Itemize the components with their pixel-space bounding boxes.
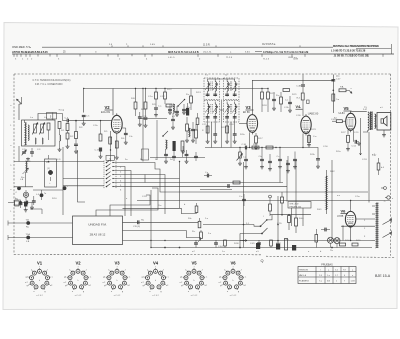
junction af xyxy=(249,147,250,148)
resistor R12 xyxy=(164,92,167,99)
dial scale line 2 main xyxy=(12,53,394,55)
IF transformer T1 (can) xyxy=(204,78,220,100)
capacitor C62 xyxy=(171,118,175,120)
wire det vertical x280 xyxy=(279,148,281,152)
wire grid V3 left xyxy=(239,123,247,125)
capacitor C4 coupling xyxy=(66,119,68,123)
svg-text:UNIDAD F.M.: UNIDAD F.M. xyxy=(88,223,107,227)
capacitor C15 xyxy=(233,133,237,135)
resistor R11 xyxy=(155,92,158,99)
svg-text:T.1A: T.1A xyxy=(26,233,31,236)
IF transformer T4 (can) xyxy=(224,101,240,123)
wire switch feed 1 xyxy=(203,224,254,226)
FM trimpot 1 xyxy=(195,206,198,213)
resistor R8 xyxy=(134,102,137,109)
ground speaker xyxy=(383,134,385,135)
wire right vertical x369 xyxy=(368,132,370,203)
resistor R33 h xyxy=(233,181,240,184)
svg-text:V4.: V4. xyxy=(296,105,302,109)
ground bus dots xyxy=(164,247,166,249)
svg-text:UL84: UL84 xyxy=(339,112,346,115)
wire y186 xyxy=(14,186,33,188)
vertical wire x303 xyxy=(302,208,304,226)
wire between cans xyxy=(221,100,223,148)
resistor R15 xyxy=(206,126,209,133)
switch S6 xyxy=(163,131,168,136)
wire into V2 grid xyxy=(69,120,112,122)
svg-text:C.4B: C.4B xyxy=(296,85,301,87)
resistor R16 xyxy=(226,126,229,133)
vertical wire x63 xyxy=(62,147,64,215)
output transformer hatch xyxy=(370,112,373,113)
svg-text:s: s xyxy=(168,277,169,279)
dial scale line 1 xyxy=(42,46,333,48)
bus wire top xyxy=(113,88,206,90)
left corner sub-circuit xyxy=(15,200,21,205)
capacitor C61 xyxy=(191,128,195,130)
svg-text:P.A.: P.A. xyxy=(340,86,344,89)
mains switch S4 xyxy=(261,220,267,226)
capacitor C36 xyxy=(244,146,246,150)
svg-text:FILAMENT.: FILAMENT. xyxy=(299,280,310,283)
svg-text:s: s xyxy=(52,277,53,279)
terminal strip leads xyxy=(372,240,376,242)
resistor R41 xyxy=(315,235,318,243)
resistor R4 xyxy=(75,132,78,139)
svg-text:V1: V1 xyxy=(37,260,43,265)
resistor R2 xyxy=(66,124,69,131)
vertical wire x278 xyxy=(277,196,279,248)
resistor R18 xyxy=(261,92,264,99)
cluster grounds xyxy=(169,111,171,112)
resistor R1 xyxy=(47,123,50,130)
switch box S xyxy=(47,113,57,120)
wire V5 down pins xyxy=(347,130,349,135)
bottom res row2 xyxy=(270,240,273,246)
ground G4 xyxy=(27,158,29,159)
FM coupling cap C30 xyxy=(137,220,139,224)
svg-text:C.Phillips 71 L 5.B 70 71 2.B: C.Phillips 71 L 5.B 70 71 2.B 2.0 73.B1 … xyxy=(263,52,309,54)
svg-text:2B A3 U8 12: 2B A3 U8 12 xyxy=(90,233,106,237)
svg-text:38 B 5.2 O.71 5.8 1.3 2.4 B: 38 B 5.2 O.71 5.8 1.3 2.4 B xyxy=(168,51,199,54)
svg-text:V6: V6 xyxy=(230,260,236,265)
capacitor C64 xyxy=(164,153,168,155)
svg-text:Ωav: Ωav xyxy=(336,75,340,78)
capacitor C39 xyxy=(268,160,272,162)
chassis dashed border top xyxy=(14,73,391,75)
V3 cathode resistor R17 xyxy=(255,136,258,143)
speaker wires xyxy=(376,115,377,117)
tube V5 UL84 xyxy=(346,113,356,130)
resistor R28 h xyxy=(252,146,259,149)
svg-text:ECH 81: ECH 81 xyxy=(101,110,111,114)
capacitor C16 xyxy=(272,98,276,100)
switch block box xyxy=(106,156,114,161)
svg-text:a.C 4.2: a.C 4.2 xyxy=(152,295,159,297)
svg-text:a.C 4.2: a.C 4.2 xyxy=(75,295,82,297)
resistor R34 xyxy=(269,204,272,211)
capacitor C47 xyxy=(331,79,335,81)
wire IFT4 bottom to af line xyxy=(230,122,232,148)
speaker cone xyxy=(384,116,388,126)
wire FM out 2 xyxy=(123,221,199,223)
svg-text:11 5.R.: 11 5.R. xyxy=(203,44,211,46)
svg-text:71.2.5: 71.2.5 xyxy=(226,57,233,59)
junction dot a xyxy=(83,88,84,89)
wire V6 cathode xyxy=(350,229,352,241)
capacitor C42 xyxy=(293,158,297,160)
capacitor C60 xyxy=(242,198,246,200)
AF line xyxy=(205,147,310,149)
V5 cathode resistor R27 xyxy=(347,135,350,142)
resistor R14 h xyxy=(166,104,172,107)
trimmer CT1 xyxy=(22,151,26,153)
capacitor C38 xyxy=(260,158,264,160)
left small box A xyxy=(15,201,20,206)
resistor chain R3 xyxy=(58,122,61,129)
wire V4 feeds xyxy=(302,75,304,85)
wire h y118 xyxy=(140,118,167,120)
ground G1 xyxy=(67,145,69,146)
wire FM out 3 xyxy=(123,231,202,238)
dial lamp LPa xyxy=(328,237,334,243)
left parts marks xyxy=(19,202,23,204)
svg-text:EF 89: EF 89 xyxy=(243,111,250,114)
svg-text:a.C 4.2: a.C 4.2 xyxy=(114,295,121,297)
coil L5 xyxy=(173,104,174,113)
resistor R31 h xyxy=(352,243,358,246)
switch fan wire 7 xyxy=(144,175,146,183)
capacitor C68 xyxy=(206,174,208,178)
wire OT bottom xyxy=(363,130,368,132)
svg-text:Q: Q xyxy=(261,258,264,263)
lamp leads xyxy=(330,243,332,247)
svg-text:OL 5.5×5.5 a: OL 5.5×5.5 a xyxy=(262,43,276,46)
svg-text:V5: V5 xyxy=(191,260,197,265)
switch fan wire 1 xyxy=(113,167,125,217)
svg-text:BJE 15-A: BJE 15-A xyxy=(375,274,391,278)
resistor R24 xyxy=(332,94,335,101)
chassis dashed border bottom xyxy=(14,254,262,256)
terminal dot osc xyxy=(17,186,21,190)
capacitor C37 xyxy=(244,158,248,160)
capacitor C40 xyxy=(278,158,282,160)
heater dropper hatched bar xyxy=(326,176,328,210)
small box C4T xyxy=(307,100,310,104)
wire switch out xyxy=(267,215,272,220)
antenna coil L1b xyxy=(28,125,29,140)
terminal strip hatched bar xyxy=(376,203,378,249)
wire y161 xyxy=(14,161,49,163)
svg-text:A77CO 56.49.93.2O.5.5O.2.5.15: A77CO 56.49.93.2O.5.5O.2.5.15 xyxy=(12,50,48,54)
wire left terminal feed 2 xyxy=(8,237,73,239)
wire V2 pin k down xyxy=(110,131,112,162)
capacitor C48 xyxy=(301,84,305,86)
wire switch feed 2 xyxy=(240,233,262,235)
svg-text:s: s xyxy=(129,277,130,279)
bus wire y178 xyxy=(63,178,104,180)
capacitor C65 xyxy=(172,155,176,157)
wire r4 bus xyxy=(75,150,77,162)
speaker frame xyxy=(377,113,391,131)
grid stopper R26 xyxy=(336,120,342,123)
svg-text:a.C: a.C xyxy=(192,251,196,253)
wire V6 plate xyxy=(350,201,352,210)
heater dropper leads xyxy=(326,170,328,176)
svg-text:FESTIVAL Da LTDbRcNOPWGTECPKWN: FESTIVAL Da LTDbRcNOPWGTECPKWN xyxy=(333,44,379,48)
svg-text:C.c: C.c xyxy=(277,156,280,158)
svg-text:V3: V3 xyxy=(114,260,120,265)
IF transformer T2 (can) xyxy=(204,101,220,123)
antenna box bottom coil xyxy=(35,138,36,144)
mains switch S5 xyxy=(262,228,268,234)
wire antenna down xyxy=(18,104,20,120)
svg-text:UABC 80: UABC 80 xyxy=(308,113,319,116)
switch fan wire 2 xyxy=(113,171,131,217)
wire ps bus xyxy=(296,213,332,215)
vertical wire x77 xyxy=(78,150,86,202)
svg-text:a.C 4.2: a.C 4.2 xyxy=(191,295,198,297)
svg-text:C.s: C.s xyxy=(285,100,288,102)
resistor R22 xyxy=(301,93,304,100)
output transformer core xyxy=(370,112,372,131)
resistor R36b xyxy=(196,118,199,125)
wire IFT1 to V3 xyxy=(220,109,225,111)
tube V3 EBF89 xyxy=(247,115,258,133)
svg-text:1.1B: 1.1B xyxy=(350,281,355,283)
terminal dot Ta xyxy=(40,193,44,197)
svg-text:STE. 204/: STE. 204/ xyxy=(290,204,299,206)
svg-text:a.C 4.2: a.C 4.2 xyxy=(36,295,43,297)
dial scale upper small marks xyxy=(111,45,113,47)
capacitor C59 xyxy=(227,184,229,188)
wire V4 down xyxy=(302,134,304,148)
test-values table xyxy=(298,267,356,284)
capacitor C14 xyxy=(213,133,217,135)
wire step right 2 xyxy=(110,195,150,216)
detector slug xyxy=(48,170,52,174)
svg-text:V5: V5 xyxy=(344,106,350,111)
resistor R20 xyxy=(280,97,283,104)
svg-text:V4: V4 xyxy=(153,260,159,265)
V2 cathode resistor R6 xyxy=(115,141,118,148)
adjustable coil LA2 xyxy=(41,124,44,133)
terminal blob T2 xyxy=(26,236,30,240)
wire x345 v6 area xyxy=(342,226,344,240)
svg-text:V6: V6 xyxy=(341,209,347,214)
junction dots mid xyxy=(135,88,136,89)
chassis dashed border right xyxy=(390,74,392,256)
switch S3 xyxy=(178,100,184,106)
regleta label box xyxy=(288,202,311,209)
svg-text:. 5. 5B 5B. 71 23.B 2O 73.B1 2: . 5. 5B 5B. 71 23.B 2O 73.B1 2B. xyxy=(333,55,369,58)
detector can box xyxy=(45,159,57,187)
wire avc line xyxy=(150,157,205,159)
capacitor C5 xyxy=(82,114,86,116)
dial scale right edge tick xyxy=(391,44,393,54)
svg-text:VALV. A: VALV. A xyxy=(299,274,307,277)
svg-text:L 4 L 5: L 4 L 5 xyxy=(168,57,175,59)
resistor R21 h xyxy=(283,89,290,92)
coil L6 xyxy=(166,140,167,149)
svg-text:s: s xyxy=(206,277,207,279)
capacitor C7 xyxy=(74,143,78,145)
vertical wire x143 xyxy=(142,89,144,162)
vertical bus x151 xyxy=(150,190,152,248)
resistor R44 xyxy=(195,130,198,138)
tube V6 UY85 xyxy=(345,211,355,227)
wire V5 plate to OT xyxy=(351,111,367,113)
output tap resistor R25 xyxy=(339,89,346,92)
wire can top xyxy=(48,155,50,159)
wire det vertical x262 xyxy=(261,148,263,152)
dial scale right underline xyxy=(356,48,391,50)
svg-text:TENSION: TENSION xyxy=(299,269,308,271)
long wire y192 xyxy=(160,172,368,192)
oscillator coil L3 xyxy=(26,161,27,173)
resistor R38 xyxy=(281,197,284,203)
feedback arrow xyxy=(360,118,362,150)
tube V2 ECH81 xyxy=(111,115,122,133)
heater line right xyxy=(341,225,375,227)
bus wire y163 xyxy=(49,161,105,163)
output transformer primary xyxy=(368,112,369,130)
wire antenna box top to V2 xyxy=(38,114,63,121)
ground bus wire xyxy=(151,247,372,249)
switch fan wire 5 xyxy=(113,182,283,184)
wire y190 xyxy=(33,189,63,191)
bus wire upper right xyxy=(206,88,268,90)
vertical wire x157 xyxy=(156,120,158,160)
bus wire y186 xyxy=(63,185,104,187)
wire y189 xyxy=(200,189,232,191)
output transformer secondary xyxy=(375,114,376,128)
vertical wire x287 xyxy=(286,160,288,202)
wire B+ vertical xyxy=(332,75,334,114)
capacitor C67 xyxy=(194,155,198,157)
svg-text:V3: V3 xyxy=(246,105,252,110)
capacitor C17b xyxy=(288,101,292,103)
wire v6 plate run xyxy=(330,200,351,202)
vertical bus x179 xyxy=(179,162,181,209)
bottom res row1 xyxy=(224,240,227,246)
resistor R42b xyxy=(173,141,176,151)
svg-text:5.6.5: 5.6.5 xyxy=(245,52,251,54)
svg-text:L.B: L.B xyxy=(20,179,24,181)
wire FM out 1 xyxy=(123,208,197,213)
resistor R30 h xyxy=(340,243,346,246)
wire V3 plate up xyxy=(252,80,333,112)
svg-text:J.B: J.B xyxy=(26,241,30,243)
svg-text:⌐K.Cp: ⌐K.Cp xyxy=(58,110,65,112)
capacitor C55b xyxy=(324,228,326,232)
bleeder resistor R40 xyxy=(284,239,287,251)
filter cap block C58b xyxy=(292,245,296,251)
svg-text:OND.MED. 5 ‰: OND.MED. 5 ‰ xyxy=(12,45,31,49)
adjustable coil LA1 xyxy=(34,124,37,133)
tone control arrow 1 xyxy=(383,220,392,225)
capacitor C66 xyxy=(185,153,189,155)
cluster caps row xyxy=(168,108,172,110)
bottom cap row3 xyxy=(257,242,261,244)
wire left terminal feed 1 xyxy=(8,222,73,224)
svg-text:UY85: UY85 xyxy=(337,215,344,218)
cap C12b xyxy=(144,117,148,119)
antenna input coil box xyxy=(22,120,56,146)
wire step right xyxy=(96,188,158,216)
V5 bypass cap C52 xyxy=(354,140,356,144)
switch section box xyxy=(142,149,149,160)
svg-text:F.M. Y C.L. CONECTADO: F.M. Y C.L. CONECTADO xyxy=(35,83,63,86)
resistor R29 h xyxy=(266,146,273,149)
variable core coil xyxy=(23,192,28,197)
mains arrow xyxy=(240,240,247,242)
tone control arrow 2 xyxy=(383,233,392,238)
filter cap block C57 xyxy=(276,244,280,250)
svg-text:1.4.5: 1.4.5 xyxy=(150,44,156,46)
resistor R19 xyxy=(267,92,270,99)
resistor R35 xyxy=(186,124,189,131)
switch fan wire 6 xyxy=(113,185,287,187)
dial scale lower ticks and numbers xyxy=(13,54,15,57)
svg-text:C.T.O. TENSION KILOCICLOS(KC): C.T.O. TENSION KILOCICLOS(KC) xyxy=(33,79,71,82)
svg-text:a.C 4.2: a.C 4.2 xyxy=(230,295,237,297)
resistor R45 xyxy=(377,163,380,170)
wire box right vertical xyxy=(52,113,54,121)
resistor R2b xyxy=(66,133,69,139)
tube V4 UABC80 xyxy=(301,116,311,133)
chassis dashed border left xyxy=(13,74,15,255)
wire y209 xyxy=(30,209,42,214)
capacitor C13 xyxy=(154,107,158,109)
cluster caps leads xyxy=(169,104,171,109)
svg-text:T.A: T.A xyxy=(26,219,30,222)
svg-text:R.B: R.B xyxy=(131,98,135,100)
dial lamp LPb xyxy=(334,238,340,244)
ground G5 xyxy=(25,209,27,210)
junction blob right xyxy=(63,186,67,190)
antenna arrow symbol xyxy=(17,99,22,104)
capacitor C41 xyxy=(286,162,290,164)
resistor R39 xyxy=(288,216,291,223)
filter cap block C56 xyxy=(256,243,260,249)
terminal blob T1 xyxy=(26,221,30,225)
svg-text:L 5 9B 7D 71 23.8 20 73.81: L 5 9B 7D 71 23.8 20 73.81 28 xyxy=(331,50,366,53)
coil L7 xyxy=(189,128,190,137)
resistor R13 xyxy=(190,96,193,103)
wire IFT2 bottom to af line xyxy=(211,122,213,148)
wire osc section xyxy=(18,146,20,162)
wire det down x280 xyxy=(279,166,281,187)
V2 screen cap C10 xyxy=(124,132,128,134)
svg-text:m: m xyxy=(95,51,97,53)
antenna terminal xyxy=(384,187,387,190)
svg-text:⊥: ⊥ xyxy=(49,182,51,185)
svg-text:V2: V2 xyxy=(75,260,81,265)
vertical wire x291 xyxy=(291,208,293,226)
svg-text:71.2.5: 71.2.5 xyxy=(263,58,270,60)
antenna coil core xyxy=(25,123,27,146)
padding cap C63 xyxy=(186,108,189,116)
mains entry symbols xyxy=(387,196,390,199)
bottom cap row2 xyxy=(214,242,218,244)
resistor R9 xyxy=(144,102,147,109)
FM trimpot 2 xyxy=(198,221,201,228)
grid leak chain R7 xyxy=(100,121,102,134)
V4 cathode R23 xyxy=(308,136,311,143)
vertical wire x296 upper xyxy=(295,160,297,208)
bottom cap row1 xyxy=(194,242,198,244)
